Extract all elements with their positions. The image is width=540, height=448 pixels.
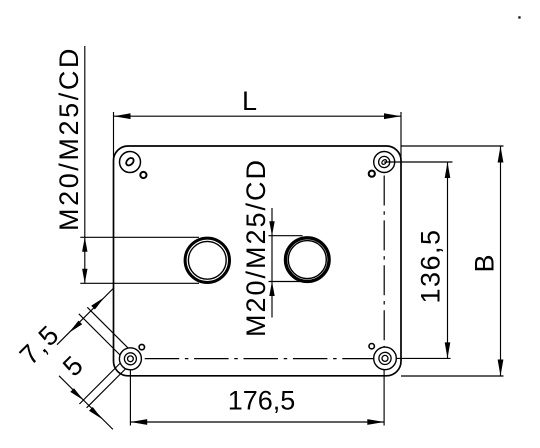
svg-text:M20/M25/CD: M20/M25/CD [54,46,84,231]
pilot hole BR [369,344,374,349]
screw BL [119,348,141,370]
screw BR [374,347,397,370]
dimension B [401,146,504,376]
dimension 176,5 [130,369,384,425]
pilot hole TR [369,171,375,177]
dimension 5 (corner diagonal) [57,350,125,429]
svg-text:L: L [242,86,257,116]
svg-text:136,5: 136,5 [416,228,446,303]
screw TR [374,152,395,173]
dimension M20/M25/CD middle [241,158,303,337]
box outline (enclosure lid) [114,146,402,376]
pilot hole TL [140,172,146,178]
cable gland knockout right [286,238,330,282]
dimension L [114,86,402,161]
pilot hole BL [139,344,144,349]
dimension 7,5 (corner diagonal) [14,289,128,371]
svg-text:B: B [470,254,500,272]
centerline horizontal (bottom screws) [145,358,374,360]
svg-text:M20/M25/CD: M20/M25/CD [241,158,271,337]
stray dot top right [518,16,520,18]
screw TL [120,152,141,173]
svg-text:176,5: 176,5 [228,386,296,416]
centerline vertical (right screws) [383,176,385,348]
dimension 136,5 [384,162,452,358]
dimension M20/M25/CD left [54,46,199,283]
cable gland knockout left [185,238,229,282]
